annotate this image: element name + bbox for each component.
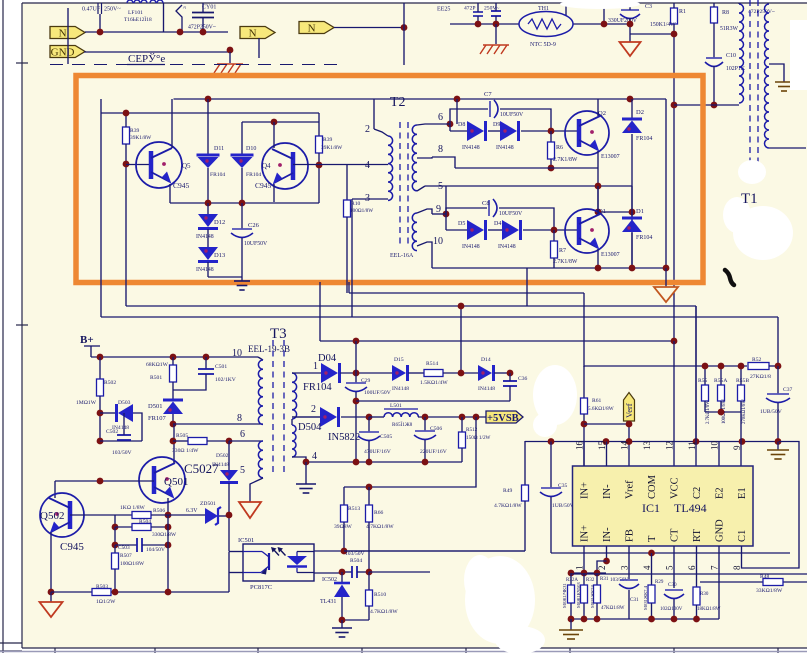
junction bottom rail xyxy=(648,616,655,623)
svg-text:Verf: Verf xyxy=(624,403,634,418)
wire LED bottom xyxy=(297,572,314,574)
wire pin10 xyxy=(718,442,720,467)
wire CX to N xyxy=(99,14,101,32)
junction R510 top xyxy=(366,569,373,576)
svg-text:R52: R52 xyxy=(752,357,762,363)
svg-text:М8З1ЖК74: М8З1ЖК74 xyxy=(590,585,595,608)
T1 primary coil xyxy=(739,4,744,103)
svg-text:RT: RT xyxy=(692,529,703,542)
capacitor C4 472P xyxy=(473,11,483,13)
svg-text:E13007: E13007 xyxy=(601,252,620,258)
svg-text:FR104: FR104 xyxy=(303,382,332,393)
white patch right of T1 xyxy=(560,0,807,260)
wire to ground xyxy=(208,276,242,278)
svg-text:D14: D14 xyxy=(481,357,491,363)
svg-text:D2: D2 xyxy=(636,109,644,116)
resistor R512 body xyxy=(459,432,466,448)
wire TL431 ground rail xyxy=(342,619,369,621)
wire C502 top xyxy=(123,413,125,435)
wire Q501 collector stub xyxy=(173,461,175,463)
svg-text:+5VSB: +5VSB xyxy=(487,413,519,424)
junction R504 right xyxy=(165,524,172,531)
svg-text:FR104: FR104 xyxy=(210,172,225,178)
wire opto out top xyxy=(314,550,345,552)
wire C26 bottom lead xyxy=(241,238,243,277)
capacitor C502 plates xyxy=(117,435,131,440)
wire opto in bottom xyxy=(229,572,243,574)
diode D4 symbol xyxy=(502,220,521,240)
wire drop 2 xyxy=(603,3,605,24)
svg-text:R514: R514 xyxy=(426,361,438,367)
wire R55A bottom xyxy=(720,401,722,412)
wire D2 to bottom rail xyxy=(631,212,633,268)
svg-text:N: N xyxy=(308,22,316,34)
wire R55 bottom rail xyxy=(705,411,741,413)
svg-text:Q2: Q2 xyxy=(598,110,606,117)
ground earth under IC xyxy=(559,630,583,639)
wire R55B top xyxy=(740,366,742,385)
svg-text:C506: C506 xyxy=(430,426,442,432)
resistor R55 body xyxy=(702,385,709,401)
capacitor C8 symbol xyxy=(489,199,497,217)
resistor R55A body xyxy=(718,385,725,401)
svg-text:IN4148: IN4148 xyxy=(392,386,409,392)
wire to triangle ground xyxy=(50,592,52,602)
svg-text:11: 11 xyxy=(687,441,697,450)
resistor R513 body xyxy=(341,505,348,522)
svg-text:9: 9 xyxy=(732,445,742,450)
svg-text:220UF/16V: 220UF/16V xyxy=(420,449,447,455)
resistor R506 body xyxy=(132,512,151,519)
junction xyxy=(738,363,745,370)
svg-text:FR104: FR104 xyxy=(636,136,652,142)
wire rail C xyxy=(349,292,584,294)
junction N/CX xyxy=(97,29,104,36)
svg-text:100UF/50V: 100UF/50V xyxy=(364,390,391,396)
resistor R32A body xyxy=(568,585,575,603)
transformer core xyxy=(399,122,401,248)
flag N mid xyxy=(240,27,275,40)
junction R61 xyxy=(581,421,588,428)
svg-text:1KΩ 1/8W: 1KΩ 1/8W xyxy=(120,505,146,511)
T3 primary upper coil xyxy=(258,360,263,424)
white patch left of R61 xyxy=(533,365,577,437)
ground earth T3 pin4 xyxy=(296,484,316,493)
svg-text:104/50V: 104/50V xyxy=(146,547,165,553)
svg-text:D11: D11 xyxy=(214,146,224,152)
wire R32A top xyxy=(570,573,572,585)
svg-text:330Ω1/8W: 330Ω1/8W xyxy=(152,532,177,538)
junction ground xyxy=(339,617,346,624)
junction R512 xyxy=(459,414,466,421)
svg-text:2: 2 xyxy=(597,566,607,571)
wire R513 bottom xyxy=(343,522,345,551)
capacitor C36 plates xyxy=(503,381,517,386)
wire C35 bottom lead xyxy=(550,497,552,553)
wire Q1 collector xyxy=(597,186,599,214)
svg-text:270KΩ1/8W: 270KΩ1/8W xyxy=(742,399,747,424)
svg-text:8: 8 xyxy=(732,565,742,570)
wire D2 bottom lead xyxy=(631,134,633,212)
wire C29 bottom lead xyxy=(355,392,357,462)
wire left vertical xyxy=(100,99,102,317)
svg-text:IN4148: IN4148 xyxy=(496,145,514,151)
T3 secondary lower coil xyxy=(292,425,296,457)
svg-text:R32A: R32A xyxy=(566,578,578,583)
wire C506 top xyxy=(424,417,426,431)
wire C37 top lead xyxy=(777,366,779,394)
capacitor C503 plates xyxy=(137,538,142,552)
svg-text:FR104: FR104 xyxy=(246,172,261,178)
wire to Q2 base xyxy=(521,130,579,132)
wire C26 top lead xyxy=(241,203,243,229)
resistor R55B body xyxy=(738,385,745,401)
svg-text:IC1: IC1 xyxy=(642,501,660,515)
wire R66 top xyxy=(368,487,370,505)
wire pin9 stub xyxy=(445,186,447,214)
T3 secondary upper coil xyxy=(292,373,297,419)
wire ZD out xyxy=(219,515,229,517)
wire D14 out xyxy=(494,372,510,374)
wire D503 right xyxy=(133,413,142,441)
wire R39a top xyxy=(125,113,127,127)
ground earth TL431 xyxy=(332,628,352,637)
capacitor C26 symbol xyxy=(231,229,253,238)
T2 sec lower coil xyxy=(412,213,417,251)
transistor Q2 symbol xyxy=(565,111,609,155)
svg-text:М8Ж1/ЧКЗ1: М8Ж1/ЧКЗ1 xyxy=(562,583,567,608)
wire D15 out xyxy=(408,372,424,374)
wire pin6 xyxy=(696,546,698,587)
svg-text:C945: C945 xyxy=(60,541,84,553)
svg-text:10UF50V: 10UF50V xyxy=(244,241,268,247)
svg-text:150Ω 1/2W: 150Ω 1/2W xyxy=(466,435,491,441)
ground triangle T3 pin5 xyxy=(239,502,261,518)
svg-text:1: 1 xyxy=(575,566,585,571)
wire T2 pin3 xyxy=(352,198,388,200)
wire pin2 xyxy=(606,546,608,561)
junction R6 bottom xyxy=(548,165,555,172)
wire to R61 xyxy=(583,293,585,367)
wire Q2 emitter drop xyxy=(597,151,599,168)
wire D503 left xyxy=(100,412,116,414)
junction Q4 collector xyxy=(271,119,278,126)
resistor R8 body xyxy=(711,7,718,23)
svg-text:R501: R501 xyxy=(150,375,162,381)
orange highlight box xyxy=(76,76,703,283)
junction emitter ZD row xyxy=(165,512,172,519)
wire R6 bottom xyxy=(550,159,552,168)
wire top rail inside box xyxy=(174,98,667,100)
wire Q5 base xyxy=(126,164,151,166)
wire R32 bottom xyxy=(583,603,585,619)
svg-text:6: 6 xyxy=(438,112,443,123)
wire rail D xyxy=(320,340,674,342)
capacitor C3 symbol xyxy=(620,10,640,19)
svg-text:10: 10 xyxy=(232,348,242,359)
svg-text:250V~: 250V~ xyxy=(104,7,121,13)
svg-text:14: 14 xyxy=(620,441,630,451)
transistor Q1 symbol xyxy=(565,209,609,253)
wire pin3 drop xyxy=(351,199,353,317)
wire to triangle ground xyxy=(665,268,667,287)
ground earth center xyxy=(234,281,250,290)
junction xyxy=(718,363,725,370)
wire rail under IC xyxy=(551,552,790,554)
wire cap row right xyxy=(357,571,369,573)
svg-text:16: 16 xyxy=(575,441,585,451)
svg-text:R39: R39 xyxy=(130,128,140,134)
wire feed to rail A xyxy=(526,268,528,306)
svg-text:D04: D04 xyxy=(318,353,337,364)
thermistor TH1 NTC xyxy=(519,12,573,37)
wire D2 top lead xyxy=(631,99,633,119)
junction pin2 xyxy=(603,558,610,565)
flag GND xyxy=(50,46,85,59)
transistor Q502 symbol xyxy=(40,493,84,537)
wire B+ drop xyxy=(90,346,92,357)
diode D502 symbol xyxy=(220,470,238,483)
wire R6 top xyxy=(550,131,552,142)
wire opto out bottom xyxy=(314,572,342,574)
svg-text:D502: D502 xyxy=(216,453,229,459)
svg-text:C35: C35 xyxy=(558,483,568,489)
svg-text:2.7K1/8W: 2.7K1/8W xyxy=(553,157,578,163)
svg-text:T2: T2 xyxy=(390,95,406,110)
wire R55B bottom xyxy=(740,401,742,412)
wire to R52 node xyxy=(777,317,779,365)
wire C8 right xyxy=(499,208,554,230)
wire C3 bottom xyxy=(629,18,631,42)
svg-text:39K1/8W: 39K1/8W xyxy=(321,145,343,151)
svg-text:ZD501: ZD501 xyxy=(200,501,216,507)
wire R31 top xyxy=(596,573,598,585)
wire C7 right xyxy=(500,109,551,131)
svg-text:4.7KΩ1/8W: 4.7KΩ1/8W xyxy=(494,503,522,509)
wire pin9 to diode row xyxy=(445,214,447,230)
svg-text:3: 3 xyxy=(365,193,370,204)
junction R504 left xyxy=(112,524,119,531)
junction Q2 e xyxy=(595,209,602,216)
ground AC hatched right xyxy=(480,45,509,54)
transistor Q501 symbol xyxy=(139,457,185,503)
junction pin5 Q1 xyxy=(595,183,602,190)
diode D15 symbol xyxy=(392,365,408,381)
svg-text:T16ЬЕ12Ї18: T16ЬЕ12Ї18 xyxy=(124,16,152,23)
wire L501 out xyxy=(418,416,486,418)
capacitor C7 symbol xyxy=(490,100,498,118)
diode D13 symbol xyxy=(198,247,218,262)
capacitor C10 symbol xyxy=(705,58,723,67)
transistor Q4 symbol xyxy=(262,143,308,189)
wire B+ rail xyxy=(91,356,258,358)
wire opto left xyxy=(228,552,230,574)
wire pin2 drop xyxy=(373,99,375,129)
svg-text:C7: C7 xyxy=(484,91,492,98)
diode D9 symbol xyxy=(500,121,519,141)
wire D5-D4 xyxy=(488,229,502,231)
T1 secondary coil xyxy=(765,4,770,148)
junction C501 top xyxy=(203,354,210,361)
svg-text:Q501: Q501 xyxy=(164,476,188,488)
wire R39a long drop xyxy=(125,164,127,306)
svg-text:10UF50V: 10UF50V xyxy=(500,112,524,118)
svg-text:R39: R39 xyxy=(323,137,333,143)
junction xyxy=(581,570,588,577)
svg-text:D9: D9 xyxy=(493,122,500,128)
resistor R61 body xyxy=(581,398,588,414)
svg-text:C5027: C5027 xyxy=(184,461,219,476)
wire R66 bottom xyxy=(368,522,370,572)
diode D04 symbol xyxy=(321,363,340,383)
wire T2 pin6 xyxy=(417,124,446,125)
svg-text:5: 5 xyxy=(665,565,675,570)
wire T3 pin4 xyxy=(292,457,306,462)
wire Q501 base row xyxy=(55,480,154,482)
svg-text:C37: C37 xyxy=(783,387,793,393)
wire T2 pin10 xyxy=(417,242,432,268)
svg-text:E1: E1 xyxy=(737,487,748,499)
wire R32A bottom xyxy=(570,603,572,619)
wire C4 bottom xyxy=(477,16,479,24)
wire long rail 1 xyxy=(571,573,807,575)
wire return C36 xyxy=(356,400,510,402)
wire D504 in xyxy=(292,416,320,418)
svg-text:FR107: FR107 xyxy=(148,415,166,422)
wire C7 left xyxy=(450,109,488,124)
wire R61 to pin16 xyxy=(583,414,585,466)
svg-text:8: 8 xyxy=(237,413,242,424)
svg-text:TH1: TH1 xyxy=(538,6,549,12)
svg-text:R65Ї1Ж8: R65Ї1Ж8 xyxy=(392,421,413,428)
svg-text:C2: C2 xyxy=(692,487,703,499)
junction pin4 T xyxy=(648,550,655,557)
capacitor C501 plates xyxy=(198,369,214,374)
junction pin6 T3 xyxy=(226,438,233,445)
svg-text:R30: R30 xyxy=(700,592,709,597)
svg-text:СЕРЎ°e: СЕРЎ°e xyxy=(128,53,165,65)
wire C503 left lead xyxy=(115,544,137,546)
svg-text:C10: C10 xyxy=(726,53,736,59)
junction Verf xyxy=(626,421,633,428)
wire D12-D13 xyxy=(207,229,209,247)
wire below N flag xyxy=(258,38,260,58)
wire pin4 lower xyxy=(651,553,653,585)
junction R6 top xyxy=(548,128,555,135)
junction C35 top xyxy=(548,438,555,445)
resistor R32 body xyxy=(581,585,588,603)
opto phototransistor xyxy=(243,552,269,573)
svg-text:8: 8 xyxy=(438,144,443,155)
svg-text:5: 5 xyxy=(240,465,245,476)
wire D501 bottom xyxy=(172,414,174,424)
wire C37 bottom lead xyxy=(777,403,779,442)
diode D14 symbol xyxy=(478,365,494,381)
black pen mark xyxy=(725,270,734,285)
wire opto low side xyxy=(228,573,230,592)
wire C36 top xyxy=(509,373,511,381)
wire R501 top xyxy=(172,357,174,365)
diode D11 symbol xyxy=(197,155,220,168)
svg-text:13: 13 xyxy=(642,441,652,451)
wire 5VSB to R513 rail xyxy=(344,417,476,487)
junction C29 top xyxy=(353,370,360,377)
wire C503 left riser xyxy=(114,527,116,545)
svg-text:IN4148: IN4148 xyxy=(462,244,480,250)
svg-text:5.6KΩ1/8W: 5.6KΩ1/8W xyxy=(588,406,614,412)
IC U1 TL494 body xyxy=(573,466,754,546)
svg-text:D1: D1 xyxy=(636,208,644,215)
wire pin3 xyxy=(628,546,630,579)
junction pin6 xyxy=(447,121,454,128)
wire C5 bottom xyxy=(495,16,497,24)
svg-text:B+: B+ xyxy=(80,334,94,346)
wire R507 bottom xyxy=(114,569,116,592)
wire emitter rail xyxy=(170,202,319,204)
wire T1 tap to ground xyxy=(769,64,784,82)
wire ground stem xyxy=(777,442,779,451)
junction bottom rail xyxy=(693,616,700,623)
wire R8 top xyxy=(713,3,715,7)
wire Q4 collector drop xyxy=(273,122,275,148)
svg-text:C8: C8 xyxy=(482,200,490,207)
wire GND row xyxy=(84,51,230,53)
svg-text:IN4148: IN4148 xyxy=(196,234,214,240)
svg-text:R513: R513 xyxy=(348,506,360,512)
transformer core xyxy=(283,340,285,475)
wire CY01 bottom xyxy=(202,18,204,33)
capacitor C41 plates xyxy=(352,566,357,578)
wire Q502 emitter xyxy=(50,532,52,592)
wire T3 pin2 xyxy=(292,416,321,418)
junction xyxy=(353,459,360,466)
wire R10 feed xyxy=(348,282,350,293)
wire to pin11 C2 xyxy=(695,306,697,442)
wire cap row left xyxy=(342,571,352,573)
wire ground stem xyxy=(570,619,572,630)
wire Q5 emitter xyxy=(169,184,171,203)
junction rail A xyxy=(458,303,465,310)
wire pin5 xyxy=(673,546,675,588)
wire C8 left xyxy=(446,208,487,214)
wire Q502 collector riser xyxy=(54,481,56,498)
svg-text:COM: COM xyxy=(647,474,658,499)
junction R507 bottom xyxy=(112,589,119,596)
svg-text:C26: C26 xyxy=(248,222,260,229)
wire LF101 drop xyxy=(163,3,165,32)
wire C5 top xyxy=(495,3,497,11)
wire C4 top xyxy=(477,3,479,12)
wire second rail xyxy=(101,112,319,114)
wire R32 top xyxy=(583,573,585,585)
svg-text:C30: C30 xyxy=(668,582,677,588)
svg-text:C1: C1 xyxy=(737,530,748,542)
svg-text:330Ω 1/4W: 330Ω 1/4W xyxy=(172,448,199,454)
junction C503 left xyxy=(112,542,119,549)
wire R55 bottom xyxy=(704,401,706,412)
svg-text:51R3W: 51R3W xyxy=(720,26,739,32)
wire pin8 entry xyxy=(432,157,455,168)
ground triangle Q502 xyxy=(40,602,63,617)
wire C31 bottom xyxy=(628,590,630,619)
svg-text:R504: R504 xyxy=(139,519,151,525)
inductor LF101 common-mode choke xyxy=(127,0,163,3)
junction R1 T1 xyxy=(671,102,678,109)
wire R30 bottom xyxy=(696,605,698,619)
wire Q5 collector xyxy=(171,99,173,148)
wire T3 pin1 xyxy=(292,372,321,374)
svg-text:1UB/50V: 1UB/50V xyxy=(552,503,574,509)
